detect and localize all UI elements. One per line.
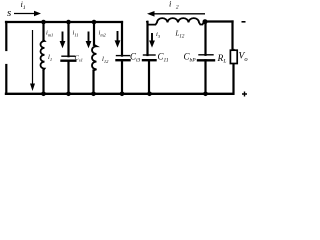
capacitor CbP branch wire bottom: [204, 60, 206, 94]
wire top rail left section: [6, 21, 122, 23]
long current arrow at far left: [30, 30, 35, 91]
node dot bottom rail at L1: [41, 92, 46, 97]
current arrow i2 (pointing left over coil): [147, 11, 205, 17]
inductor L1 coil: [40, 40, 44, 70]
resistor RL branch wires: [231, 22, 233, 51]
capacitor Cs branch wire bottom: [67, 61, 69, 94]
capacitor C11 branch wire bottom: [148, 60, 150, 94]
resistor RL box: [230, 50, 237, 63]
capacitor C11 branch wire top (from coil corner): [146, 22, 148, 55]
capacitor C11 plates: [144, 54, 156, 56]
node dot bottom rail at C11: [147, 92, 152, 97]
branch current arrow im1: [60, 32, 66, 49]
svg-text:s: s: [7, 7, 11, 19]
capacitor Ci3 branch (corner from top rail): [121, 22, 123, 56]
node dot top rail at L1: [41, 20, 46, 25]
wire left edge bottom segment (port terminal): [5, 65, 7, 94]
node dot bottom rail at Cs: [66, 92, 71, 97]
polarity plus (bottom right): [242, 92, 247, 97]
inductor L2 branch upper wire: [93, 22, 95, 45]
branch current arrow im2: [115, 31, 121, 48]
capacitor Cs branch wire top: [67, 22, 69, 56]
branch current arrow i11: [86, 32, 92, 49]
node dot top rail at Cs: [66, 20, 71, 25]
wire bottom rail: [6, 93, 233, 95]
inductor L1 branch lower wire: [42, 69, 44, 94]
current arrow i1 (input, pointing right): [14, 11, 41, 16]
wire left edge top segment (port terminal): [5, 22, 7, 50]
node dot bottom rail at L2: [91, 92, 96, 97]
node dot bottom rail at Ci3: [120, 92, 125, 97]
capacitor CbP branch wire top: [204, 22, 206, 55]
inductor L2 branch lower wire: [92, 71, 94, 94]
inductor L2 coil: [92, 45, 97, 71]
node dot top rail at CbP: [203, 19, 208, 24]
node dot bottom rail at CbP: [203, 92, 208, 97]
inductor L12 (series horizontal coil, sagging baseline): [147, 18, 204, 25]
branch current arrow i3: [149, 33, 155, 48]
node dot top rail at L2: [92, 20, 97, 25]
capacitor CbP plates: [199, 54, 213, 56]
wire top rail right section: [205, 20, 233, 22]
capacitor Cs plates: [62, 55, 75, 57]
inductor L1 branch upper wire: [42, 22, 44, 40]
polarity minus (top right): [242, 21, 246, 23]
